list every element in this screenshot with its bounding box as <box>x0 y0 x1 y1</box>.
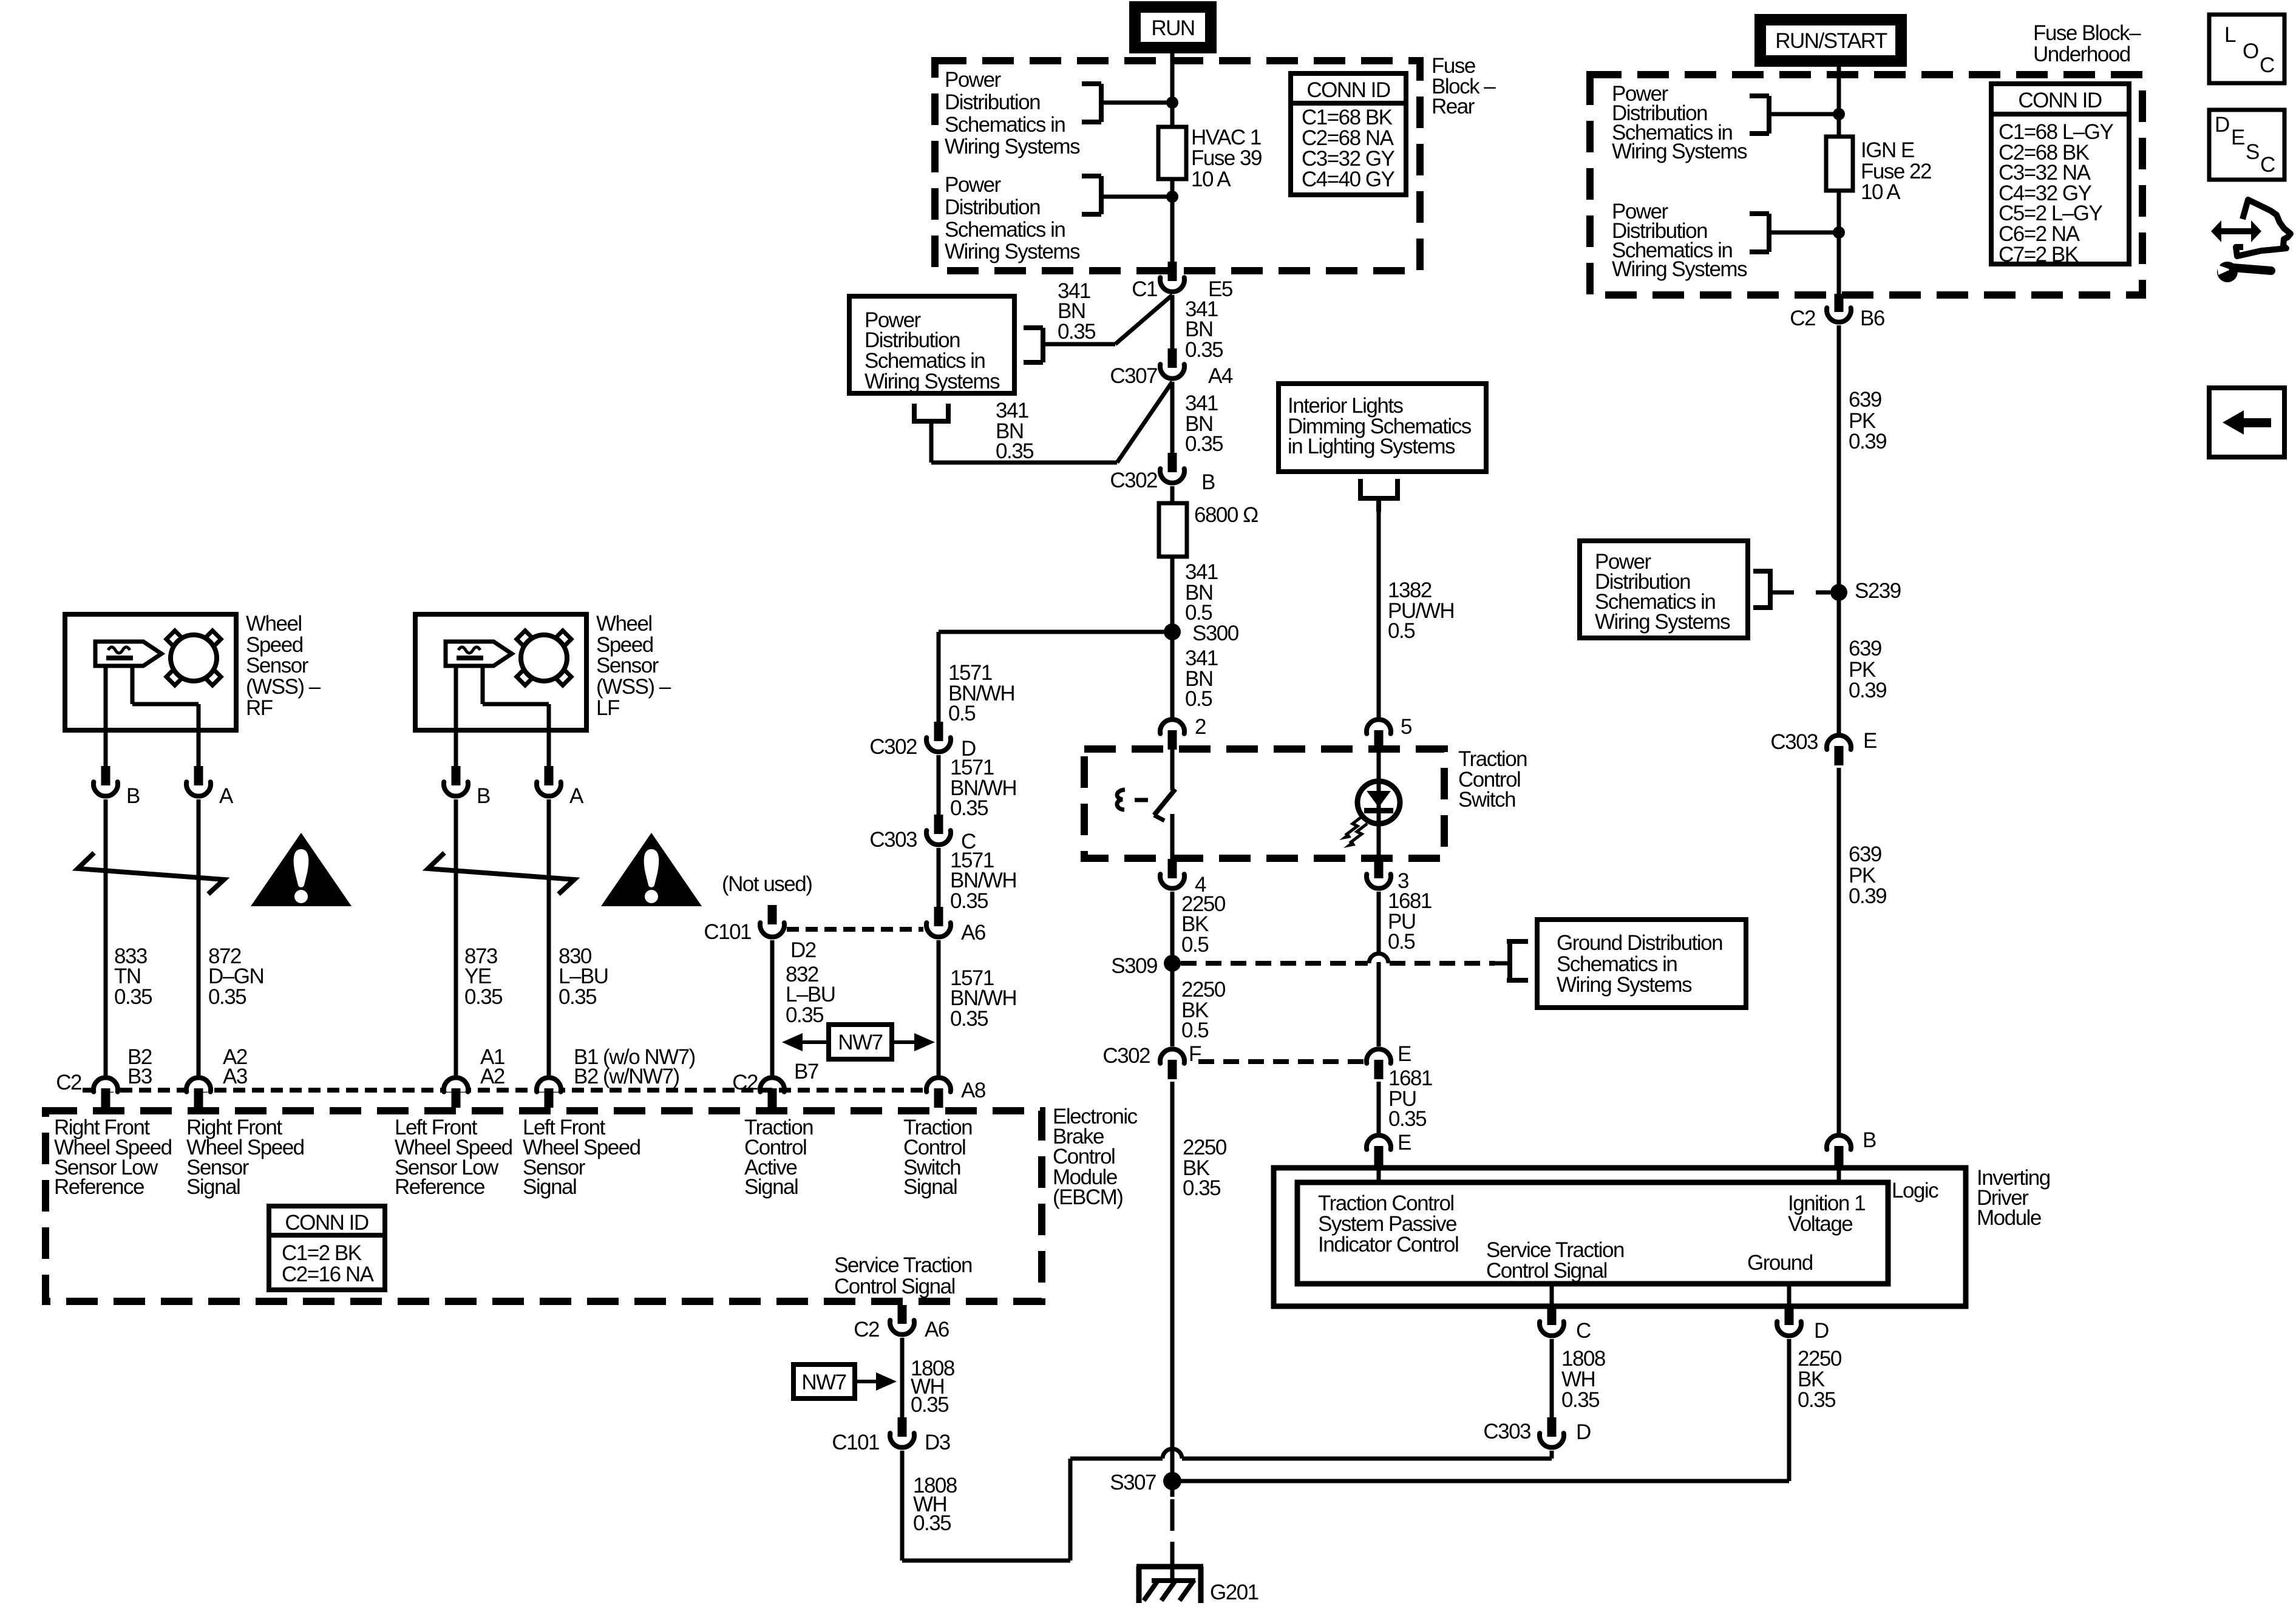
wire D3 down right up <box>900 1451 905 1561</box>
svg-text:O: O <box>2243 39 2258 63</box>
NW7 option box lower <box>793 1364 855 1398</box>
svg-text:Wheel: Wheel <box>246 612 302 636</box>
wire S300 branch left <box>939 630 1172 634</box>
ground distribution box <box>1537 920 1746 1008</box>
wire C303E to B <box>1837 768 1841 1134</box>
svg-text:0.39: 0.39 <box>1849 430 1886 453</box>
svg-text:0.35: 0.35 <box>114 985 152 1009</box>
dashed line F to E <box>1198 1059 1364 1064</box>
svg-text:Wheel: Wheel <box>596 612 652 636</box>
svg-text:Reference: Reference <box>54 1175 144 1199</box>
dashed line D2 to A6 <box>787 927 923 932</box>
wire C1 to C307 <box>1170 295 1175 349</box>
svg-text:0.35: 0.35 <box>950 796 988 820</box>
svg-text:Wiring Systems: Wiring Systems <box>1612 140 1747 163</box>
hop over main wire <box>1163 1449 1182 1459</box>
wire C302 to resistor <box>1170 486 1175 503</box>
connector LF B1 ebcm <box>537 1077 561 1091</box>
svg-text:S300: S300 <box>1192 622 1239 645</box>
switch wire lower <box>1170 814 1175 859</box>
svg-text:C2: C2 <box>1790 307 1815 330</box>
svg-text:Distribution: Distribution <box>945 195 1040 219</box>
connector C101 D3 <box>898 1417 907 1437</box>
svg-text:Sensor: Sensor <box>246 654 309 677</box>
svg-text:G201: G201 <box>1210 1581 1258 1604</box>
svg-text:C307: C307 <box>1110 364 1157 388</box>
svg-text:Wiring Systems: Wiring Systems <box>864 370 1000 393</box>
svg-text:IGN E: IGN E <box>1861 138 1914 162</box>
splice S307 <box>1163 1472 1181 1490</box>
svg-text:A: A <box>219 784 234 808</box>
svg-text:B6: B6 <box>1860 307 1884 330</box>
svg-text:0.35: 0.35 <box>950 889 988 913</box>
wire S300 to pin 2 <box>1170 632 1175 717</box>
svg-text:Distribution: Distribution <box>945 90 1040 114</box>
svg-text:639: 639 <box>1849 637 1881 660</box>
svg-text:E: E <box>2231 126 2244 149</box>
svg-text:6800 Ω: 6800 Ω <box>1194 503 1258 527</box>
connector C2 A6 stcs <box>898 1305 907 1324</box>
connector C302 D <box>934 722 943 741</box>
svg-text:Power: Power <box>945 68 1002 92</box>
svg-text:2: 2 <box>1195 715 1206 739</box>
svg-text:C: C <box>1576 1319 1591 1343</box>
wire A6 to A8 <box>937 940 941 1076</box>
svg-text:Logic: Logic <box>1892 1179 1938 1202</box>
svg-text:CONN ID: CONN ID <box>1306 78 1390 102</box>
LED indicator <box>1357 781 1400 824</box>
node junction below IGN fuse <box>1833 226 1845 239</box>
svg-text:0.35: 0.35 <box>1058 320 1095 344</box>
bracket under interior lights box <box>1358 479 1363 501</box>
svg-text:S309: S309 <box>1111 954 1157 978</box>
svg-text:D: D <box>2215 113 2229 137</box>
svg-text:B3: B3 <box>127 1065 152 1088</box>
svg-text:0.39: 0.39 <box>1849 679 1886 702</box>
svg-text:0.35: 0.35 <box>1798 1388 1835 1412</box>
svg-text:L: L <box>2224 23 2236 47</box>
svg-text:0.5: 0.5 <box>1388 930 1415 954</box>
svg-text:Control Signal: Control Signal <box>834 1275 955 1298</box>
warning triangle RF <box>251 833 352 906</box>
svg-text:D3: D3 <box>925 1431 950 1454</box>
wire pin4 to S309 <box>1170 892 1175 963</box>
connector B of WSS RF <box>101 766 110 785</box>
connector pin C <box>1547 1306 1557 1325</box>
wire interior lights to pin 5 <box>1377 512 1381 717</box>
wire 1571 branch down <box>937 632 941 722</box>
connector pin 3 <box>1374 859 1384 878</box>
svg-text:0.39: 0.39 <box>1849 884 1886 908</box>
connector C303 C <box>934 815 943 834</box>
connector C302 B <box>1168 453 1177 472</box>
splice S300 <box>1164 623 1181 640</box>
connector C302 F <box>1160 1049 1184 1063</box>
svg-text:C302: C302 <box>1110 469 1157 492</box>
svg-text:C101: C101 <box>832 1431 879 1454</box>
node junction below fuse <box>1166 191 1178 203</box>
svg-text:E: E <box>1398 1131 1411 1154</box>
wire hop to E <box>1377 962 1381 1046</box>
svg-text:Wiring Systems: Wiring Systems <box>945 240 1080 263</box>
svg-text:(WSS) –: (WSS) – <box>596 675 671 699</box>
inverting driver module logic box <box>1297 1182 1888 1284</box>
svg-text:RUN/START: RUN/START <box>1775 29 1887 53</box>
svg-text:D2: D2 <box>790 938 816 962</box>
connector B7 ebcm <box>760 1077 784 1091</box>
fuse F22 IGN E <box>1826 137 1853 191</box>
reference bracket 3 <box>1024 325 1043 330</box>
svg-text:CONN ID: CONN ID <box>285 1211 369 1235</box>
svg-text:C302: C302 <box>869 735 917 759</box>
svg-text:A6: A6 <box>925 1318 949 1341</box>
wire C303D down and left <box>1550 1451 1554 1459</box>
LOC icon <box>2209 15 2284 83</box>
wire to power dist ref 3 <box>1769 112 1839 117</box>
node junction above fuse <box>1166 97 1178 109</box>
connector C2 B6 <box>1835 294 1844 312</box>
svg-text:E: E <box>1863 729 1877 753</box>
svg-text:A2: A2 <box>480 1065 504 1088</box>
warning triangle LF <box>601 833 702 906</box>
reference bracket 1 <box>1082 81 1101 86</box>
svg-text:Wiring Systems: Wiring Systems <box>1612 257 1747 281</box>
svg-text:C2=16 NA: C2=16 NA <box>282 1263 375 1286</box>
svg-text:C2: C2 <box>56 1071 81 1094</box>
connector A6 ebcm <box>934 907 943 926</box>
connector E lower <box>1367 1135 1391 1149</box>
wire WSS RF A down <box>197 799 201 1076</box>
svg-text:Rear: Rear <box>1432 95 1475 118</box>
svg-text:Ground: Ground <box>1747 1251 1813 1275</box>
svg-text:NW7: NW7 <box>838 1031 882 1054</box>
svg-text:B: B <box>477 784 490 808</box>
wire C to C303 D <box>1550 1339 1554 1418</box>
wheel speed sensor RF box <box>65 614 236 730</box>
wire resistor to S300 <box>1170 557 1175 632</box>
svg-text:C7=2 BK: C7=2 BK <box>1999 243 2079 266</box>
connector B of WSS LF <box>452 766 461 785</box>
svg-text:Fuse Block–: Fuse Block– <box>2033 21 2141 45</box>
wire WSS RF B down <box>104 799 108 1076</box>
connector RF A2 ebcm <box>186 1077 211 1091</box>
svg-text:C2: C2 <box>854 1318 879 1341</box>
svg-text:0.35: 0.35 <box>1183 1176 1220 1200</box>
connector C1 E5 <box>1168 262 1177 281</box>
svg-text:E: E <box>1398 1042 1411 1066</box>
svg-text:639: 639 <box>1849 388 1881 412</box>
dashed line S309 to ground ref <box>1181 961 1368 966</box>
bracket ground distribution <box>1507 939 1528 944</box>
wire E into IDM <box>1377 1165 1381 1185</box>
reference bracket 5 <box>1750 211 1769 216</box>
inverting driver module outer box <box>1274 1168 1966 1306</box>
svg-text:C303: C303 <box>1770 730 1818 754</box>
svg-text:S239: S239 <box>1855 579 1901 603</box>
conn id table ebcm <box>269 1206 385 1290</box>
svg-text:0.35: 0.35 <box>913 1511 951 1535</box>
switch wire upper <box>1170 749 1175 790</box>
svg-text:D: D <box>1814 1319 1829 1343</box>
svg-text:10 A: 10 A <box>1861 180 1901 204</box>
connector RF B2 ebcm <box>93 1077 118 1091</box>
wire diagonal C1 to ref box <box>1115 295 1172 344</box>
svg-text:0.35: 0.35 <box>1388 1107 1426 1131</box>
svg-text:Sensor: Sensor <box>596 654 659 677</box>
DESC icon <box>2209 110 2284 180</box>
ignition switch RUN/START box <box>1757 16 1904 64</box>
svg-text:C: C <box>2260 53 2274 77</box>
fuse F39 HVAC 1 <box>1158 127 1186 179</box>
svg-text:0.35: 0.35 <box>950 1007 988 1031</box>
wire B6 to S239 <box>1837 325 1841 592</box>
svg-text:Switch: Switch <box>1458 788 1515 812</box>
wire S307 stub <box>1170 1481 1175 1497</box>
wrench arrow icon <box>2236 200 2291 256</box>
wire A6 to C101 D3 <box>900 1338 905 1418</box>
wire C303C to A6 <box>937 848 941 907</box>
svg-text:0.5: 0.5 <box>1388 619 1415 643</box>
svg-text:Underhood: Underhood <box>2033 42 2130 66</box>
svg-text:0.35: 0.35 <box>1185 432 1223 456</box>
twisted pair LF <box>428 853 574 894</box>
svg-text:RUN: RUN <box>1151 16 1194 40</box>
svg-text:0.5: 0.5 <box>1181 933 1208 957</box>
ground symbol G201 <box>1136 1564 1203 1570</box>
svg-text:C303: C303 <box>1483 1420 1530 1443</box>
connector C101 D2 <box>760 923 784 937</box>
wire C inside IDM <box>1550 1284 1554 1306</box>
svg-text:C1: C1 <box>1132 277 1157 301</box>
svg-text:C: C <box>2260 153 2275 177</box>
svg-text:D: D <box>1576 1420 1591 1444</box>
wire S239 to C303 E <box>1837 592 1841 733</box>
wire pin3 to hop <box>1377 892 1381 952</box>
wire C307 to C302 <box>1170 382 1175 453</box>
EBCM dashed box <box>46 1111 1042 1301</box>
svg-text:Control Signal: Control Signal <box>1486 1259 1607 1283</box>
svg-text:LF: LF <box>596 696 619 720</box>
svg-text:B: B <box>126 784 140 808</box>
svg-text:Wiring Systems: Wiring Systems <box>1595 610 1730 634</box>
svg-text:A6: A6 <box>961 921 985 944</box>
svg-text:B: B <box>1201 470 1215 494</box>
svg-text:CONN ID: CONN ID <box>2018 89 2102 112</box>
svg-text:0.35: 0.35 <box>786 1003 823 1027</box>
wire IGN fuse down <box>1837 191 1841 295</box>
connector pin 5 <box>1367 719 1391 733</box>
bracket under ref box <box>912 404 917 424</box>
svg-text:B: B <box>1863 1128 1876 1152</box>
svg-text:Ground Distribution: Ground Distribution <box>1557 931 1722 955</box>
svg-text:S: S <box>2246 140 2259 164</box>
dashed wire to ground <box>1170 1499 1175 1566</box>
svg-text:Service Traction: Service Traction <box>834 1253 972 1277</box>
interior lights box <box>1279 384 1486 472</box>
connector pin 4 <box>1168 859 1177 878</box>
svg-text:NW7: NW7 <box>801 1371 846 1394</box>
switch blade <box>1154 789 1175 815</box>
svg-text:Module: Module <box>1977 1206 2041 1230</box>
svg-text:(WSS) –: (WSS) – <box>246 675 321 699</box>
svg-text:Reference: Reference <box>395 1175 484 1199</box>
connector B idm <box>1827 1135 1851 1149</box>
connector A8 ebcm <box>926 1077 951 1091</box>
connector pin D <box>1785 1306 1794 1325</box>
LED light arrows <box>1345 816 1363 835</box>
svg-text:639: 639 <box>1849 842 1881 866</box>
svg-text:(EBCM): (EBCM) <box>1053 1185 1123 1209</box>
svg-text:in Lighting Systems: in Lighting Systems <box>1288 435 1455 458</box>
svg-text:0.35: 0.35 <box>464 985 502 1009</box>
wire D2 to B7 <box>770 940 775 1076</box>
connector E upper <box>1367 1049 1391 1063</box>
svg-text:RF: RF <box>246 696 273 720</box>
wire RUN/START down <box>1837 64 1841 137</box>
svg-text:A4: A4 <box>1208 364 1233 388</box>
svg-text:Schematics in: Schematics in <box>945 113 1065 137</box>
svg-text:5: 5 <box>1401 715 1411 739</box>
svg-text:0.35: 0.35 <box>1185 338 1223 362</box>
svg-text:Wiring Systems: Wiring Systems <box>1557 973 1692 997</box>
svg-text:A: A <box>569 784 584 808</box>
wire hop to corner <box>1070 1457 1163 1461</box>
hop over S309 line <box>1369 954 1388 963</box>
wire F to S307 <box>1170 1082 1175 1481</box>
svg-text:Signal: Signal <box>186 1175 240 1199</box>
svg-text:C101: C101 <box>704 920 751 944</box>
splice S309 <box>1164 955 1181 972</box>
connector C307 A4 <box>1168 348 1177 368</box>
reference bracket 4 <box>1750 93 1769 98</box>
conn id table rear <box>1291 73 1406 195</box>
wire WSS LF B down <box>454 799 458 1076</box>
connector pin 2 <box>1160 719 1184 733</box>
svg-text:0.35: 0.35 <box>559 985 596 1009</box>
power distribution ref box right <box>1580 541 1748 638</box>
wire E to E <box>1377 1082 1381 1134</box>
traction control switch dashed box <box>1084 749 1444 858</box>
svg-text:Indicator Control: Indicator Control <box>1318 1233 1458 1256</box>
svg-text:0.35: 0.35 <box>208 985 246 1009</box>
dotted connector line C2 <box>83 1088 923 1093</box>
connector A of WSS LF <box>545 766 554 785</box>
svg-text:0.35: 0.35 <box>1561 1388 1599 1412</box>
svg-text:10 A: 10 A <box>1191 168 1231 191</box>
svg-text:S307: S307 <box>1110 1471 1156 1494</box>
switch detent symbol <box>1117 790 1125 810</box>
svg-text:Signal: Signal <box>744 1175 798 1199</box>
NW7 arrow lower <box>855 1380 877 1383</box>
LED lamp wire <box>1377 749 1381 859</box>
back arrow icon <box>2209 388 2284 457</box>
svg-text:Power: Power <box>945 173 1002 197</box>
wire C302D to C303C <box>937 755 941 815</box>
svg-text:0.5: 0.5 <box>1181 1019 1208 1042</box>
wire B into IDM <box>1837 1165 1841 1185</box>
NW7 arrows <box>801 1040 829 1044</box>
svg-text:0.35: 0.35 <box>911 1393 948 1417</box>
svg-text:A8: A8 <box>961 1079 985 1102</box>
wire S309 to C302 F <box>1170 963 1175 1046</box>
svg-text:B7: B7 <box>794 1060 818 1083</box>
svg-text:B2 (w/NW7): B2 (w/NW7) <box>574 1065 679 1088</box>
wheel speed sensor LF box <box>415 614 586 730</box>
fuse block underhood dashed box <box>1590 75 2142 295</box>
svg-text:Schematics in: Schematics in <box>945 218 1065 242</box>
wire RUN to fuse <box>1170 51 1175 127</box>
fuse block rear dashed box <box>935 61 1420 271</box>
svg-text:Fuse 39: Fuse 39 <box>1191 146 1262 170</box>
reference bracket 2 <box>1082 174 1101 178</box>
svg-text:C1=2 BK: C1=2 BK <box>282 1241 362 1265</box>
NW7 option box upper <box>829 1025 892 1059</box>
wire to power distribution ref 2 <box>1101 195 1172 199</box>
svg-text:0.35: 0.35 <box>996 439 1033 463</box>
ignition switch RUN box <box>1132 4 1214 51</box>
svg-text:C4=40 GY: C4=40 GY <box>1302 168 1395 191</box>
bracket S239 <box>1753 569 1773 574</box>
wire to power distribution ref 1 <box>1101 101 1172 105</box>
svg-text:Voltage: Voltage <box>1788 1212 1852 1236</box>
conn id table underhood <box>1991 84 2129 264</box>
svg-text:0.5: 0.5 <box>948 702 975 725</box>
twisted pair RF <box>78 853 224 894</box>
wire D to S307 <box>1787 1339 1792 1481</box>
connector C303 D <box>1547 1417 1557 1437</box>
svg-text:0.5: 0.5 <box>1185 687 1212 711</box>
wire fuse to C1 <box>1170 179 1175 262</box>
svg-text:C303: C303 <box>869 828 917 852</box>
connector A of WSS RF <box>194 766 203 785</box>
connector C303 E right <box>1827 735 1851 749</box>
wire to power dist ref 4 <box>1769 231 1839 235</box>
svg-text:(Not used): (Not used) <box>722 872 812 896</box>
connector LF A1 ebcm <box>444 1077 468 1091</box>
svg-text:Signal: Signal <box>903 1175 957 1199</box>
wire diagonal C307 to ref box stem <box>1117 382 1172 463</box>
svg-text:A3: A3 <box>223 1065 247 1088</box>
power distribution ref box <box>849 296 1014 393</box>
node junction above IGN fuse <box>1833 108 1845 120</box>
wire D inside IDM <box>1787 1284 1792 1306</box>
svg-text:C302: C302 <box>1102 1044 1150 1068</box>
resistor 6800 ohm <box>1159 503 1187 557</box>
splice S239 <box>1830 584 1847 601</box>
stub not used <box>768 905 777 924</box>
wire WSS LF A down <box>547 799 551 1076</box>
svg-text:Wiring Systems: Wiring Systems <box>945 135 1080 158</box>
svg-text:Signal: Signal <box>523 1175 576 1199</box>
